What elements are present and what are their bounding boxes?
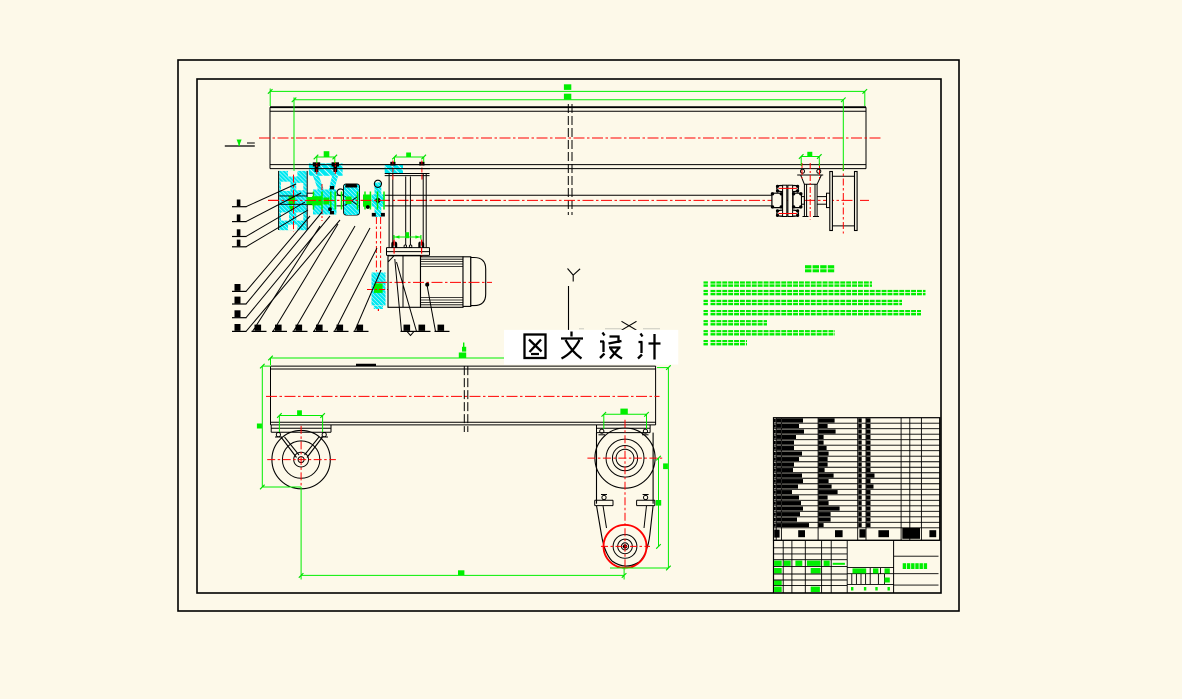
motor balance dot bbox=[426, 283, 429, 286]
motor end ring bbox=[463, 257, 471, 307]
beam centerline bbox=[259, 137, 881, 139]
drive pulley W1 bbox=[279, 171, 306, 230]
left caster wheel bbox=[272, 430, 330, 488]
technical notes text lines bbox=[704, 281, 708, 286]
title block project name text bbox=[903, 563, 906, 569]
motor body bbox=[421, 257, 464, 308]
lower view beam bbox=[271, 365, 656, 367]
wheel W2 dim extension bbox=[842, 100, 844, 171]
hanger H1 dimension bbox=[316, 156, 335, 158]
pulley hub mark bbox=[289, 196, 296, 204]
wire shaft horizontal bbox=[385, 194, 772, 196]
right caster bolts upper bbox=[600, 429, 604, 433]
part labels column upper bbox=[232, 206, 247, 208]
hanger H3 dimension bbox=[801, 156, 819, 158]
pulley groove notches bbox=[288, 171, 297, 177]
column top bolts bbox=[390, 162, 395, 166]
motor gearbox bbox=[388, 256, 421, 307]
left caster dimension bbox=[279, 415, 322, 417]
datum mark left bbox=[225, 145, 255, 147]
pulley hub box bbox=[307, 193, 322, 204]
lower coupling C2 bbox=[372, 273, 386, 306]
gear housing G2 bbox=[344, 184, 360, 215]
watermark char she bbox=[600, 333, 622, 359]
shaft step bbox=[802, 197, 805, 205]
brace mark bbox=[407, 331, 414, 335]
dimension line D2 bbox=[294, 99, 843, 101]
bearing hanger H1 plate bbox=[309, 163, 343, 175]
shaft centerline overlay bbox=[268, 199, 500, 201]
right small wheel bbox=[604, 525, 647, 568]
column clamp plate bbox=[385, 165, 403, 174]
part labels column lower bbox=[232, 290, 247, 292]
hanger H1 arms bbox=[313, 176, 325, 195]
title block middle cells bbox=[847, 567, 893, 569]
surface finish symbol X bbox=[622, 321, 637, 330]
shaft centerline bbox=[268, 199, 869, 201]
parts table header labels bbox=[774, 530, 779, 538]
lower beam centerline bbox=[266, 395, 660, 397]
universal joint U1 bbox=[372, 195, 385, 207]
hanger H1 bolts bbox=[313, 162, 320, 166]
spacer mark bbox=[363, 195, 371, 207]
surface finish symbol Y bbox=[568, 269, 574, 276]
column web feet bbox=[404, 245, 407, 248]
coupling corner dots bbox=[771, 193, 773, 195]
left caster bolts bbox=[276, 433, 280, 437]
outer border frame bbox=[178, 60, 959, 611]
right big wheel bbox=[595, 428, 655, 488]
right caster dimension bbox=[604, 413, 647, 415]
section line bbox=[568, 286, 570, 330]
right caster centerlines bbox=[624, 420, 626, 570]
inner border frame bbox=[197, 79, 941, 593]
hub shaft lines bbox=[279, 195, 307, 197]
motor end cap bbox=[471, 258, 486, 306]
beam bottom overlay lines bbox=[309, 164, 430, 166]
lower beam splice bbox=[463, 366, 465, 432]
lower view left height dimension bbox=[261, 366, 263, 487]
parts list table grid bbox=[774, 418, 940, 541]
weld tick mark bbox=[356, 364, 376, 366]
title block green entries bbox=[774, 561, 782, 566]
vertical drive shaft hidden bbox=[375, 217, 377, 272]
bearing hanger H3 bbox=[801, 175, 822, 184]
right coupling C1 bbox=[772, 193, 782, 207]
right fork bbox=[597, 506, 613, 561]
dimension line D1 overall bbox=[270, 90, 865, 92]
left caster fork bbox=[281, 437, 297, 458]
column dimension bbox=[394, 236, 421, 238]
right bracket bolts bbox=[602, 495, 606, 499]
right caster plate bbox=[597, 427, 651, 429]
right inner dimension bbox=[658, 458, 660, 546]
faint guide dashes bbox=[579, 328, 584, 330]
coupling bolt lobes bbox=[777, 186, 783, 192]
parts list entries bbox=[774, 419, 776, 422]
part labels bottom row bbox=[252, 330, 267, 332]
wheel W2 centerlines bbox=[842, 164, 844, 234]
green ticks on shaft bbox=[313, 192, 315, 210]
column bottom bolts bbox=[391, 242, 393, 248]
left caster centerlines bbox=[267, 459, 336, 461]
title block grid bbox=[774, 539, 940, 541]
column bottom plate bbox=[387, 247, 430, 249]
column top dimension bbox=[395, 156, 424, 158]
left caster plate bbox=[271, 427, 331, 429]
right bracket plates bbox=[595, 499, 613, 501]
shaft stub right bbox=[817, 196, 830, 198]
technical notes title bbox=[805, 265, 811, 272]
right bracket sides bbox=[596, 433, 598, 504]
watermark char ji bbox=[638, 334, 661, 360]
bevel gear block G1 bbox=[313, 190, 337, 215]
watermark char wen bbox=[561, 332, 583, 359]
watermark char tu bbox=[525, 335, 546, 359]
watermark box bbox=[504, 330, 678, 365]
top view main beam bbox=[270, 106, 866, 108]
pulley centerline vertical bbox=[293, 175, 295, 232]
rope drum wheel W2 bbox=[830, 172, 833, 231]
beam splice joint bbox=[567, 104, 569, 215]
hanger column I-beam bbox=[388, 174, 390, 248]
title block right cells bbox=[894, 555, 939, 557]
part leader lines bbox=[246, 184, 296, 207]
motor centerline bbox=[376, 281, 492, 283]
right outer height dimension bbox=[667, 368, 669, 568]
lower view top dimension bbox=[271, 357, 505, 359]
bottom span dimension bbox=[301, 574, 624, 576]
